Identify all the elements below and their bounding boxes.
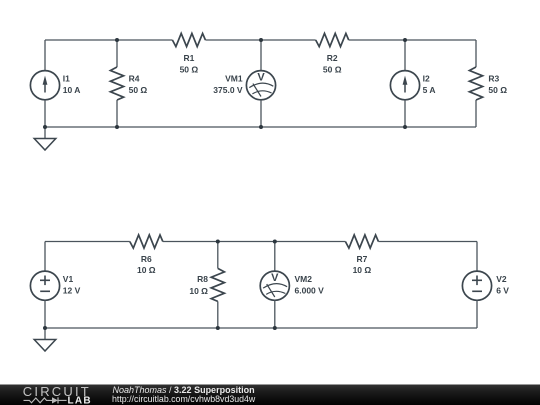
svg-text:6 V: 6 V <box>496 285 509 295</box>
voltage source V2 <box>462 271 491 300</box>
wire bottom circuit top rail right <box>378 241 477 243</box>
svg-text:VM1: VM1 <box>225 73 243 83</box>
wire V1 bottom stub <box>44 300 46 328</box>
resistor R8 <box>211 268 224 301</box>
svg-text:12 V: 12 V <box>63 285 81 295</box>
wire bottom circuit top rail left <box>45 241 130 243</box>
current source I2 <box>390 71 419 100</box>
node V1 bottom junction <box>43 326 47 330</box>
voltage source V1 <box>30 271 59 300</box>
voltmeter VM1 <box>246 71 275 100</box>
logo diode <box>52 397 58 403</box>
resistor R7 <box>345 235 378 248</box>
wire bottom rail top circuit <box>45 126 476 128</box>
node R4 bottom junction <box>115 125 119 129</box>
node VM2 top junction <box>273 240 277 244</box>
wire V2 top stub <box>476 242 478 272</box>
svg-text:375.0 V: 375.0 V <box>213 85 243 95</box>
svg-text:V: V <box>271 272 279 284</box>
ground bottom circuit <box>34 328 56 351</box>
voltmeter VM2 <box>260 271 289 300</box>
svg-text:R1: R1 <box>183 53 194 63</box>
node VM2 bottom junction <box>273 326 277 330</box>
svg-text:5 A: 5 A <box>423 85 436 95</box>
svg-text:V1: V1 <box>63 274 74 284</box>
node I2 top junction <box>403 38 407 42</box>
svg-text:50 Ω: 50 Ω <box>323 64 342 74</box>
svg-text:50 Ω: 50 Ω <box>180 64 199 74</box>
svg-text:V: V <box>257 72 265 84</box>
svg-text:I1: I1 <box>63 73 70 83</box>
wire top rail left (I1 top to R1 left) <box>45 39 172 41</box>
svg-text:50 Ω: 50 Ω <box>129 85 148 95</box>
wire VM2 bottom stub <box>274 300 276 328</box>
wire I2 top stub <box>404 40 406 71</box>
wire R3 top stub <box>475 40 477 67</box>
wire bottom circuit top rail mid <box>163 241 346 243</box>
wire R8 top stub <box>217 242 219 269</box>
resistor R3 <box>469 67 482 100</box>
wire R3 bottom stub <box>475 100 477 127</box>
svg-text:R3: R3 <box>488 73 499 83</box>
svg-text:50 Ω: 50 Ω <box>488 85 507 95</box>
current source I1 <box>30 71 59 100</box>
svg-text:6.000 V: 6.000 V <box>295 285 325 295</box>
node I2 bottom junction <box>403 125 407 129</box>
ground top circuit <box>34 127 56 150</box>
svg-text:http://circuitlab.com/cvhwb8vd: http://circuitlab.com/cvhwb8vd3ud4w <box>112 394 256 404</box>
svg-text:10 Ω: 10 Ω <box>189 286 208 296</box>
wire VM1 top stub <box>260 40 262 71</box>
footer bar <box>0 385 540 405</box>
node R8 bottom junction <box>216 326 220 330</box>
svg-text:R4: R4 <box>129 73 140 83</box>
wire I2 bottom stub <box>404 100 406 127</box>
svg-text:R8: R8 <box>197 274 208 284</box>
wire R4 bottom stub <box>116 100 118 127</box>
svg-text:I2: I2 <box>423 73 430 83</box>
wire top rail right (R2 right to R3 top) <box>349 39 476 41</box>
wire VM2 top stub <box>274 242 276 272</box>
svg-text:10 Ω: 10 Ω <box>353 265 372 275</box>
node R4 top junction <box>115 38 119 42</box>
resistor R2 <box>316 33 349 46</box>
resistor R1 <box>172 33 205 46</box>
node VM1 bottom junction <box>259 125 263 129</box>
node R8 top junction <box>216 240 220 244</box>
svg-text:R2: R2 <box>327 53 338 63</box>
svg-text:10 Ω: 10 Ω <box>137 265 156 275</box>
logo resistor squiggle <box>24 398 53 403</box>
wire bottom rail bottom circuit <box>45 327 477 329</box>
resistor R6 <box>130 235 163 248</box>
wire R4 top stub <box>116 40 118 67</box>
wire V1 top stub <box>44 242 46 272</box>
wire top rail mid (R1 right to R2 left) <box>205 39 315 41</box>
svg-text:VM2: VM2 <box>295 274 313 284</box>
svg-text:LAB: LAB <box>68 396 92 405</box>
wire R8 bottom stub <box>217 301 219 328</box>
svg-text:R6: R6 <box>141 254 152 264</box>
node I1 bottom junction <box>43 125 47 129</box>
svg-text:R7: R7 <box>356 254 367 264</box>
svg-text:V2: V2 <box>496 274 507 284</box>
wire VM1 bottom stub <box>260 100 262 127</box>
wire I1 top stub <box>44 40 46 71</box>
wire V2 bottom stub <box>476 300 478 328</box>
svg-text:10 A: 10 A <box>63 85 81 95</box>
node VM1 top junction <box>259 38 263 42</box>
wire I1 bottom stub <box>44 100 46 127</box>
resistor R4 <box>110 67 123 100</box>
